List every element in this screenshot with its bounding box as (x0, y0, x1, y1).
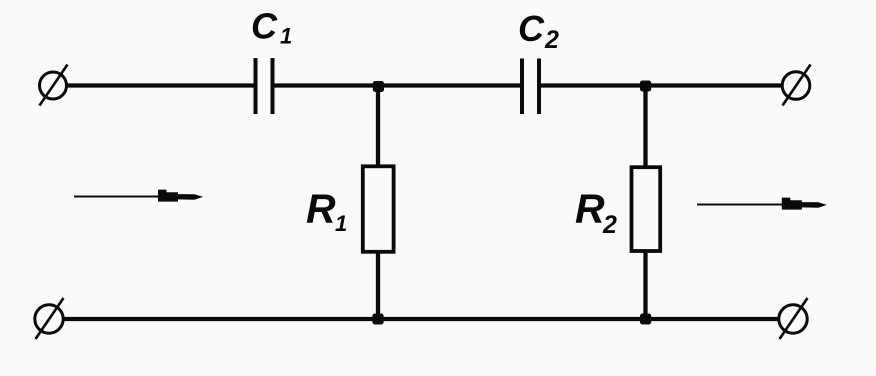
svg-text:R: R (575, 186, 605, 232)
terminal bottom-right (779, 298, 808, 339)
terminal top-left (40, 65, 68, 106)
label C2 (518, 8, 559, 54)
svg-text:1: 1 (335, 211, 347, 236)
input arrow (74, 190, 203, 202)
wire bottom (63, 317, 779, 321)
svg-text:R: R (306, 186, 336, 232)
terminal top-right (782, 65, 810, 106)
svg-text:2: 2 (602, 211, 617, 239)
label R1 (306, 186, 347, 237)
node B junction dot (640, 81, 651, 92)
node A junction dot (373, 81, 384, 92)
wire top-left segment (67, 83, 254, 87)
resistor R2 (632, 167, 661, 251)
terminal bottom-left (35, 298, 64, 339)
wire node A to R1 (376, 86, 380, 167)
wire R1 to bottom (376, 252, 380, 319)
wire R2 to bottom (643, 252, 647, 319)
wire top-right segment (541, 83, 783, 87)
capacitor C2 (522, 59, 539, 115)
svg-text:C: C (251, 6, 278, 47)
svg-text:2: 2 (544, 26, 559, 54)
output arrow (697, 198, 827, 210)
node D junction dot (640, 314, 651, 325)
svg-text:1: 1 (280, 24, 292, 49)
svg-text:C: C (518, 8, 545, 49)
wire between C1 and C2 (274, 83, 521, 87)
wire node B to R2 (643, 86, 647, 168)
capacitor C1 (256, 58, 273, 114)
resistor R1 (363, 166, 394, 252)
label R2 (575, 186, 617, 240)
node C junction dot (372, 314, 383, 325)
label C1 (251, 6, 292, 49)
